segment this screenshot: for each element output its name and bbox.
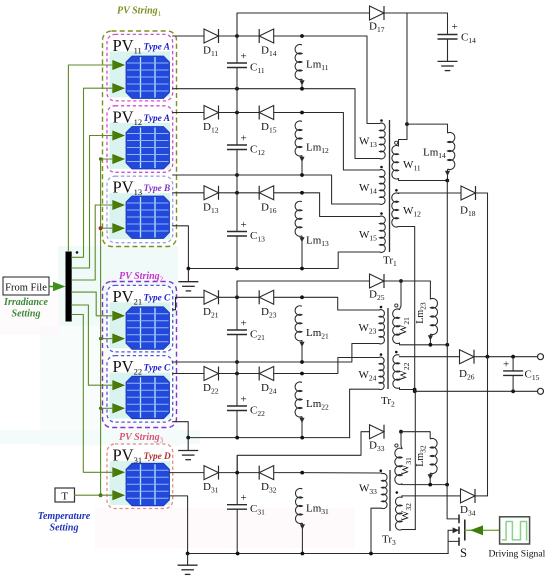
- winding W24: [379, 357, 384, 389]
- inductor Lm14: [407, 124, 448, 133]
- PV module PV31 cell: [126, 463, 170, 506]
- temperature distribution wire: [101, 159, 114, 495]
- diode D15: [259, 106, 274, 120]
- svg-text:D12: D12: [203, 121, 219, 135]
- wire row 12 to winding top: [302, 113, 380, 171]
- PV module PV13 box: [107, 176, 173, 243]
- capacitor C31: [227, 504, 247, 506]
- wire row 21 to W23 top: [302, 297, 379, 310]
- wire row 11 bottom: [237, 89, 380, 159]
- PV module PV22 cell: [126, 376, 170, 419]
- wire row 12 top: [219, 112, 260, 114]
- wire PV13 - terminal: [173, 226, 189, 269]
- winding W13: [380, 123, 386, 159]
- transformer Tr1 core: [389, 120, 391, 252]
- wire D18 down: [476, 193, 488, 357]
- PV module PV31 box: [107, 444, 173, 509]
- diode D18: [461, 186, 476, 200]
- svg-text:+: +: [241, 219, 247, 231]
- wire to D33: [237, 432, 369, 473]
- diode D25: [370, 274, 385, 288]
- svg-text:Lm11: Lm11: [306, 59, 329, 73]
- wire D34 up: [475, 495, 488, 497]
- wire row 13 to winding top: [302, 193, 380, 217]
- winding W23: [379, 310, 384, 344]
- svg-text:D22: D22: [203, 382, 219, 396]
- capacitor C11: [227, 62, 247, 64]
- capacitor C22: [227, 405, 247, 407]
- svg-text:Type B: Type B: [144, 184, 171, 194]
- wire W24 bottom: [350, 389, 379, 437]
- inductor Lm12: [295, 121, 302, 156]
- svg-text:W15: W15: [359, 229, 377, 243]
- PV21 input arrow 1: [113, 311, 125, 320]
- svg-text:D11: D11: [203, 45, 218, 59]
- diode D24: [259, 367, 274, 381]
- wire temp to PV13 input2: [101, 227, 114, 229]
- T block: [55, 488, 75, 502]
- svg-text:Temperature: Temperature: [38, 511, 91, 522]
- svg-text:D23: D23: [261, 306, 277, 320]
- svg-text:S: S: [460, 546, 467, 560]
- PV module PV12 cell: [126, 127, 170, 170]
- svg-text:C22: C22: [250, 405, 265, 419]
- capacitor column string3: [236, 455, 238, 504]
- svg-text:D14: D14: [261, 45, 277, 59]
- wire D25 node: [399, 279, 403, 283]
- wire T to PV31 input2: [75, 494, 114, 496]
- wire row 31 to W33: [302, 472, 381, 474]
- PV module PV11 cell: [126, 56, 170, 99]
- gate drive wire: [465, 529, 500, 531]
- PV12 input arrow 1: [113, 131, 125, 140]
- wire row 13 bottom: [237, 252, 380, 269]
- svg-text:D17: D17: [369, 21, 385, 35]
- diode D33: [370, 425, 385, 439]
- output terminal +: [538, 354, 544, 360]
- winding W22: [395, 351, 398, 354]
- wire row 11 to winding top: [302, 36, 380, 124]
- winding W33: [382, 473, 388, 508]
- wire PV13 + terminal: [173, 192, 204, 194]
- diode D32: [259, 466, 274, 480]
- Driving Signal block: [500, 517, 530, 544]
- svg-text:Type A: Type A: [144, 114, 170, 124]
- svg-text:Lm14: Lm14: [423, 147, 446, 161]
- mosfet S drain lead: [447, 485, 459, 519]
- junction dots row 21: [235, 295, 239, 299]
- transformer Tr2 core: [387, 308, 389, 389]
- svg-text:D24: D24: [261, 382, 277, 396]
- wire bus to PV31 input1: [72, 315, 114, 473]
- wire W12-W32 return column: [414, 390, 417, 530]
- wire D33 node: [399, 430, 403, 434]
- capacitor C15: [512, 357, 514, 371]
- wire W12 to D18: [399, 192, 462, 195]
- svg-text:D21: D21: [203, 306, 219, 320]
- svg-text:C31: C31: [250, 503, 265, 517]
- background artifacts: [0, 246, 355, 548]
- diode D22: [204, 367, 219, 381]
- wire temp to PV21 input2: [101, 338, 114, 340]
- svg-text:Driving Signal: Driving Signal: [489, 549, 546, 560]
- capacitor C12: [227, 144, 247, 146]
- svg-text:D16: D16: [261, 201, 277, 215]
- diode D26: [460, 350, 475, 364]
- wire row 22 top: [219, 373, 260, 375]
- inductor Lm13: [295, 201, 302, 236]
- capacitor C14: [438, 34, 458, 36]
- output terminal -: [538, 388, 544, 394]
- diode D23: [259, 290, 274, 304]
- wire W33 bottom: [371, 508, 382, 553]
- wire string2 bottom: [188, 437, 349, 439]
- svg-text:D15: D15: [261, 121, 277, 135]
- wire PV12 + terminal: [173, 112, 204, 114]
- wire PV11 - terminal: [173, 88, 237, 90]
- svg-text:Lm32: Lm32: [415, 445, 428, 467]
- PV31 input arrow 2: [113, 491, 125, 500]
- wire D17 to C14: [384, 13, 448, 35]
- PV module PV21 box: [107, 285, 173, 352]
- winding W31: [401, 432, 402, 449]
- PV11 input arrow 2: [113, 84, 125, 93]
- wire bus to PV21 input1: [72, 292, 114, 316]
- svg-text:C12: C12: [250, 144, 265, 158]
- svg-text:C21: C21: [250, 329, 265, 343]
- diode D12: [204, 106, 219, 120]
- wire temp to PV22 input2: [101, 407, 114, 409]
- wire W22 to D26: [400, 356, 460, 358]
- svg-text:C15: C15: [525, 369, 540, 383]
- wire bus to PV12 input1: [72, 136, 114, 269]
- irradiance bus bar: [66, 252, 72, 322]
- svg-text:D25: D25: [369, 289, 385, 303]
- PV module PV21 cell: [126, 307, 170, 350]
- PV module PV12 box: [107, 106, 173, 173]
- PV module PV13 cell: [126, 196, 170, 239]
- svg-text:W13: W13: [359, 136, 377, 150]
- svg-text:W33: W33: [359, 483, 377, 497]
- svg-text:Tr1: Tr1: [383, 255, 397, 269]
- svg-text:+: +: [503, 359, 509, 371]
- winding W32: [396, 491, 399, 494]
- winding W12: [395, 189, 398, 192]
- svg-text:D26: D26: [459, 368, 475, 382]
- svg-text:Type A: Type A: [144, 42, 170, 52]
- wire to D17: [237, 13, 370, 36]
- svg-text:+: +: [241, 318, 247, 330]
- svg-text:Tr2: Tr2: [381, 395, 395, 409]
- capacitor column string1: [236, 13, 238, 63]
- svg-text:C11: C11: [250, 62, 265, 76]
- capacitor C21: [227, 329, 247, 331]
- junction dots row 13: [235, 191, 239, 195]
- transformer Tr3 core: [389, 470, 391, 531]
- PV12 input arrow 2: [113, 154, 125, 163]
- svg-text:Type C: Type C: [144, 364, 172, 374]
- wire PV31 + terminal: [170, 472, 205, 474]
- From File arrow: [49, 286, 54, 288]
- svg-text:D34: D34: [460, 504, 476, 518]
- svg-text:+: +: [241, 51, 247, 63]
- mosfet S channel: [458, 515, 460, 524]
- wire to D25: [237, 281, 370, 297]
- capacitor column string2: [236, 281, 238, 330]
- svg-text:W24: W24: [359, 369, 377, 383]
- svg-text:D31: D31: [203, 481, 219, 495]
- svg-text:PV String3: PV String3: [119, 432, 164, 445]
- wire PV11 + terminal: [173, 35, 204, 37]
- inductor Lm32: [401, 432, 430, 439]
- svg-text:Irradiance: Irradiance: [3, 297, 48, 308]
- PV13 input arrow 2: [113, 224, 125, 233]
- junction dots row 22: [235, 372, 239, 376]
- inductor Lm11: [295, 44, 302, 79]
- winding W11: [406, 13, 408, 124]
- svg-text:Lm13: Lm13: [306, 235, 329, 249]
- svg-text:Setting: Setting: [12, 309, 41, 320]
- svg-text:D32: D32: [261, 481, 277, 495]
- inductor Lm31: [295, 488, 302, 523]
- svg-text:Type D: Type D: [144, 452, 172, 462]
- svg-text:C13: C13: [250, 230, 265, 244]
- wire row 21 bottom: [237, 344, 379, 363]
- wire PV31 - terminal: [170, 496, 188, 554]
- svg-text:Lm12: Lm12: [306, 142, 329, 156]
- PV21 input arrow 2: [113, 334, 125, 343]
- wire PV22 - terminal: [173, 422, 189, 438]
- wire D18-D26-D34 column: [487, 357, 489, 496]
- diode D17: [370, 6, 385, 20]
- PV31 input arrow 1: [113, 468, 125, 477]
- svg-text:Tr3: Tr3: [382, 534, 396, 548]
- junction dots row 31: [235, 471, 239, 475]
- svg-text:Lm21: Lm21: [306, 327, 329, 341]
- diode D13: [204, 186, 219, 200]
- svg-text:W23: W23: [359, 322, 377, 336]
- svg-text:D13: D13: [203, 201, 219, 215]
- inductor Lm21: [295, 306, 302, 341]
- ground C14: [447, 39, 449, 61]
- junction dots row 12: [235, 111, 239, 115]
- PV22 input arrow 2: [113, 404, 125, 413]
- wire bus to PV22 input1: [72, 305, 114, 385]
- svg-text:D33: D33: [369, 440, 385, 454]
- wire W32 top to drain: [402, 495, 447, 497]
- inductor Lm22: [295, 382, 302, 417]
- PV String1 outer box: [103, 31, 177, 247]
- winding W14: [380, 170, 386, 205]
- svg-text:D18: D18: [460, 205, 476, 219]
- svg-text:Type C: Type C: [144, 293, 172, 303]
- diode D16: [259, 186, 274, 200]
- svg-text:T: T: [61, 491, 68, 503]
- svg-text:Setting: Setting: [50, 523, 79, 534]
- temperature wire junctions: [99, 157, 102, 160]
- ground string3: [187, 554, 189, 566]
- wire output positive rail: [474, 356, 539, 358]
- PV String2 outer box: [103, 282, 177, 428]
- From File block: [3, 277, 49, 295]
- winding W21: [384, 280, 401, 282]
- mosfet S source lead: [448, 541, 459, 553]
- wire PV21 - terminal: [173, 361, 237, 363]
- ground string1: [187, 269, 189, 282]
- mosfet S body arrow: [448, 529, 459, 531]
- PV22 input arrow 1: [113, 381, 125, 390]
- diode D11: [204, 29, 219, 43]
- diode D31: [204, 466, 219, 480]
- diode D14: [259, 29, 274, 43]
- svg-text:+: +: [241, 394, 247, 406]
- diode D21: [204, 290, 219, 304]
- PV11 input arrow 1: [113, 60, 125, 69]
- wire PV22 + terminal: [173, 373, 204, 375]
- svg-text:W31: W31: [400, 457, 414, 475]
- svg-text:W14: W14: [359, 182, 377, 196]
- svg-text:Lm22: Lm22: [306, 398, 329, 412]
- wire row 21 top: [219, 296, 260, 298]
- wire PV12 - terminal: [173, 174, 237, 176]
- svg-text:+: +: [241, 133, 247, 145]
- PV module PV11 box: [107, 34, 173, 101]
- svg-text:W12: W12: [403, 205, 421, 219]
- wire output negative rail: [415, 390, 539, 392]
- wire bus to PV11 input2: [72, 88, 114, 257]
- inductor Lm23: [401, 281, 430, 299]
- svg-text:+: +: [241, 492, 247, 504]
- wire W11-W21-W31 return column: [446, 181, 448, 485]
- svg-text:PV String1: PV String1: [117, 6, 162, 19]
- winding W15: [380, 216, 386, 252]
- svg-text:W11: W11: [403, 159, 421, 173]
- svg-text:Lm23: Lm23: [415, 302, 428, 324]
- wire W12 bottom: [399, 227, 415, 390]
- wire string3 bottom: [188, 553, 449, 555]
- wire row 22 to W24 top: [302, 358, 379, 374]
- svg-text:From File: From File: [5, 283, 47, 294]
- wire row 11 top: [219, 35, 260, 37]
- svg-text:Lm31: Lm31: [306, 503, 329, 517]
- svg-text:+: +: [452, 21, 458, 33]
- svg-text:W21: W21: [398, 317, 412, 335]
- svg-text:C14: C14: [461, 32, 476, 46]
- PV13 input arrow 1: [113, 200, 125, 209]
- wire PV21 + terminal: [173, 297, 204, 309]
- wire bus to PV11 input1: [68, 65, 113, 252]
- junction dots row 11: [235, 34, 239, 38]
- ground string2: [187, 438, 189, 451]
- diode D34: [447, 495, 460, 497]
- capacitor C13: [227, 231, 247, 233]
- wire row 31 top: [219, 472, 260, 474]
- svg-text:W22: W22: [398, 362, 412, 380]
- PV module PV22 box: [107, 356, 173, 423]
- svg-text:PV String2: PV String2: [119, 271, 164, 284]
- wire row 12 bottom: [237, 175, 380, 204]
- wire row 13 top: [219, 192, 260, 194]
- wire string1 bottom left: [188, 268, 237, 270]
- wire bus to PV13 input1: [72, 205, 114, 280]
